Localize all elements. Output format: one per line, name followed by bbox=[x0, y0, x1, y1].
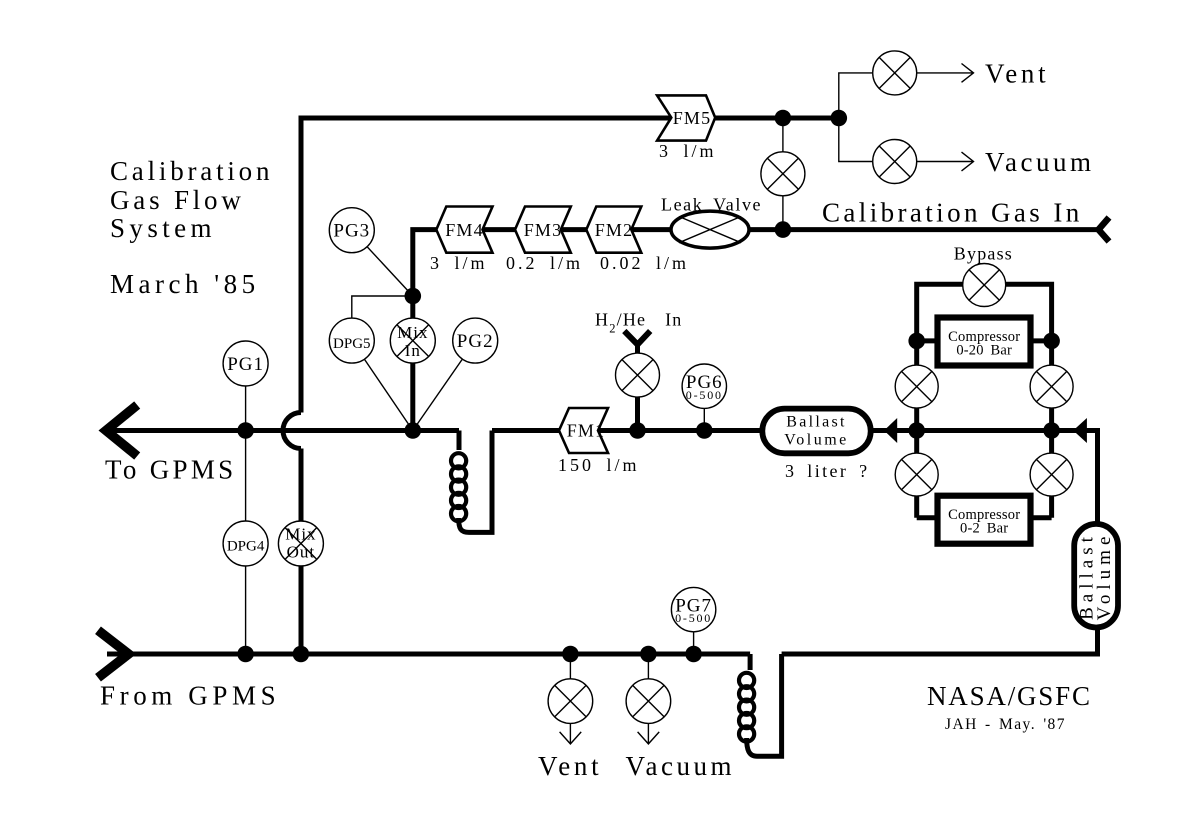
valve loop upper left bbox=[895, 365, 938, 408]
wire from GPMS line bbox=[107, 652, 750, 657]
flow meter FM2 bbox=[586, 207, 641, 253]
svg-text:Vacuum: Vacuum bbox=[626, 751, 735, 781]
wire crossover hop on vertical main line bbox=[283, 413, 301, 449]
thin vent arrow top bbox=[917, 64, 974, 83]
svg-text:150 l/m: 150 l/m bbox=[558, 455, 640, 475]
gauge DPG4 bbox=[223, 521, 268, 566]
svg-text:3 liter ?: 3 liter ? bbox=[785, 461, 870, 481]
svg-text:Ballast: Ballast bbox=[786, 414, 847, 431]
svg-text:To GPMS: To GPMS bbox=[105, 455, 237, 485]
valve vent bottom bbox=[548, 679, 593, 724]
valve loop lower left bbox=[895, 453, 938, 496]
gauge PG2 bbox=[453, 318, 498, 363]
wire to GPMS line bbox=[107, 428, 459, 433]
valve V3 bbox=[761, 152, 805, 196]
thin stem PG3 bbox=[352, 230, 413, 296]
wire calibration gas in line bbox=[413, 230, 1099, 431]
gauge DPG5 bbox=[329, 318, 374, 363]
wire coil1 entry bbox=[457, 431, 462, 451]
svg-text:FM2: FM2 bbox=[595, 220, 634, 240]
wire coil2 entry bbox=[748, 654, 753, 670]
valve bypass bbox=[963, 264, 1006, 307]
flow meter FM5 bbox=[657, 95, 715, 140]
calibration gas in end Y symbol bbox=[1099, 218, 1110, 242]
svg-text:Gas Flow: Gas Flow bbox=[110, 185, 245, 215]
gauge PG7 bbox=[671, 587, 715, 631]
thin vent/vacuum manifold top right bbox=[839, 73, 872, 162]
flow meter FM1 bbox=[559, 408, 608, 453]
wire coil1 exit u-turn bbox=[459, 431, 492, 533]
svg-text:PG2: PG2 bbox=[457, 331, 494, 352]
flow meter FM3 bbox=[515, 207, 571, 253]
thin vacuum outlet arrow bottom bbox=[638, 723, 660, 744]
compressor 0-2 box bbox=[938, 496, 1031, 544]
svg-text:0-2 Bar: 0-2 Bar bbox=[960, 521, 1008, 537]
thin vacuum arrow top bbox=[917, 152, 974, 171]
svg-text:Calibration Gas In: Calibration Gas In bbox=[822, 198, 1083, 228]
svg-text:DPG4: DPG4 bbox=[227, 539, 265, 555]
wire compressor loop frame bbox=[917, 284, 1052, 518]
ballast volume horizontal bbox=[762, 409, 870, 454]
coil restrictor 2 bbox=[739, 673, 754, 742]
thin stem PG1-DPG4 bbox=[245, 364, 247, 655]
valve mix in bbox=[390, 318, 435, 363]
svg-text:March '85: March '85 bbox=[110, 269, 260, 299]
ballast volume vertical bbox=[1074, 524, 1118, 628]
thin stem PG2 bbox=[413, 341, 475, 431]
svg-text:FM3: FM3 bbox=[524, 220, 563, 240]
svg-text:JAH - May. '87: JAH - May. '87 bbox=[945, 716, 1066, 733]
svg-text:0.2 l/m: 0.2 l/m bbox=[506, 253, 583, 273]
svg-text:FM1: FM1 bbox=[567, 421, 606, 441]
thin stem PG7 bbox=[693, 610, 695, 654]
valve vent top bbox=[873, 51, 917, 95]
svg-text:Volume: Volume bbox=[1094, 532, 1115, 621]
wire main middle line bbox=[492, 431, 1098, 655]
leak valve cross bbox=[679, 217, 741, 243]
valve vacuum top bbox=[873, 140, 917, 184]
wire compressor 0-20 rail bbox=[917, 338, 1052, 343]
svg-text:Mix: Mix bbox=[285, 525, 316, 544]
thin stem valve V3 bbox=[782, 118, 784, 230]
svg-text:Bypass: Bypass bbox=[954, 244, 1013, 264]
svg-text:Leak Valve: Leak Valve bbox=[661, 195, 762, 215]
wire H2/He inlet drop bbox=[635, 344, 640, 431]
leak valve bbox=[671, 211, 749, 248]
valve vacuum bottom bbox=[626, 679, 671, 724]
svg-text:Mix: Mix bbox=[397, 323, 428, 342]
compressor 0-20 box bbox=[938, 318, 1031, 366]
gauge PG1 bbox=[223, 341, 268, 386]
valve H2/He bbox=[616, 353, 660, 397]
valve loop upper right bbox=[1030, 365, 1073, 408]
svg-text:Out: Out bbox=[287, 543, 316, 562]
from GPMS arrowhead bbox=[98, 630, 129, 677]
svg-text:NASA/GSFC: NASA/GSFC bbox=[927, 681, 1092, 711]
svg-text:3 l/m: 3 l/m bbox=[430, 253, 488, 273]
svg-text:0-500: 0-500 bbox=[686, 388, 723, 402]
gauge PG6 bbox=[682, 364, 726, 408]
svg-text:Vent: Vent bbox=[985, 58, 1049, 88]
flow meter FM4 bbox=[436, 207, 492, 253]
svg-text:0.02 l/m: 0.02 l/m bbox=[600, 253, 689, 273]
svg-text:0-500: 0-500 bbox=[675, 611, 712, 625]
H2/He inlet Y symbol bbox=[624, 331, 650, 345]
valve mix out bbox=[278, 521, 323, 566]
svg-text:0-20 Bar: 0-20 Bar bbox=[956, 343, 1012, 359]
wire coil2 exit riser bbox=[747, 654, 782, 756]
thin stem PG6 bbox=[703, 386, 705, 430]
svg-text:System: System bbox=[110, 213, 216, 243]
thin vent outlet arrow bottom bbox=[560, 723, 582, 744]
wire top line FM5 bbox=[301, 118, 839, 413]
thin stem DPG5 top bbox=[352, 296, 413, 318]
svg-text:3 l/m: 3 l/m bbox=[659, 141, 717, 161]
svg-text:Vacuum: Vacuum bbox=[985, 147, 1094, 177]
thin stem vent valve bottom bbox=[569, 654, 571, 701]
coil restrictor 1 bbox=[451, 453, 466, 521]
gauge PG3 bbox=[329, 208, 374, 253]
svg-text:PG3: PG3 bbox=[333, 221, 370, 242]
thin stem vacuum valve bottom bbox=[647, 654, 649, 701]
svg-text:FM4: FM4 bbox=[445, 220, 484, 240]
to GPMS arrowhead bbox=[106, 405, 137, 456]
check valve right bbox=[1073, 418, 1087, 443]
svg-text:Calibration: Calibration bbox=[110, 156, 273, 186]
svg-text:From GPMS: From GPMS bbox=[100, 681, 280, 711]
svg-text:Vent: Vent bbox=[538, 751, 602, 781]
svg-text:Volume: Volume bbox=[784, 431, 848, 448]
check valve left bbox=[884, 418, 897, 443]
thin stem DPG5 bottom bbox=[352, 341, 413, 431]
svg-text:FM5: FM5 bbox=[673, 108, 712, 128]
wire compressor 0-2 rail bbox=[917, 515, 1052, 520]
svg-text:In: In bbox=[405, 341, 421, 360]
wire vertical main line lower bbox=[299, 449, 304, 655]
svg-text:DPG5: DPG5 bbox=[333, 336, 371, 352]
svg-text:PG1: PG1 bbox=[227, 354, 264, 375]
valve loop lower right bbox=[1030, 453, 1073, 496]
